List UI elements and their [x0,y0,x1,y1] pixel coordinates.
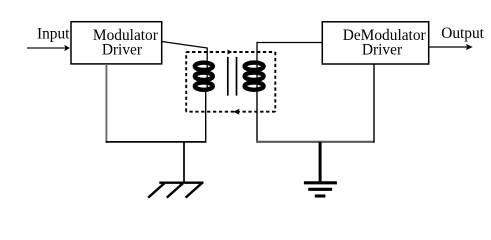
wire output arrow line [429,46,468,48]
arrow on dashed loop bottom (points left) [233,109,239,115]
ground GND1 chassis bar [159,181,203,183]
svg-text:Input: Input [37,26,70,43]
wire primary coil bottom lead [205,89,207,143]
wire Modulator bottom vertical [105,64,107,143]
dashed loop box around transformer [186,52,275,112]
transformer T1 primary coil (3 turns) [195,63,213,90]
wire primary coil top lead [206,48,208,90]
wire secondary coil bottom lead [256,89,258,143]
wire Modulator output diagonal to transformer primary [162,42,208,49]
arrow on dashed loop top (points right) [227,49,232,54]
ground GND1 hatch stroke 3 [186,183,202,197]
svg-text:Output: Output [441,25,484,42]
svg-text:Driver: Driver [362,41,402,58]
wire left horizontal bottom run [106,141,207,143]
wire secondary top horizontal to DeModulator [256,42,322,44]
output arrowhead [466,44,473,50]
input arrowhead [64,45,70,51]
svg-text:Driver: Driver [102,41,142,58]
ground GND2 earth stem [319,142,322,182]
ground GND1 chassis stem [183,142,185,183]
transformer T1 secondary coil (3 turns) [245,63,264,90]
wire input arrow line [27,47,66,49]
ground GND2 earth bar 2 [308,188,332,191]
ground GND2 earth bar 3 [315,194,326,197]
block U1 Modulator Driver box [71,22,162,64]
wire right horizontal bottom run [256,141,374,143]
wire DeModulator bottom vertical [373,64,375,143]
transformer T1 core lines [227,57,229,96]
ground GND1 hatch stroke 2 [167,183,183,197]
wire secondary coil top lead [256,43,258,90]
block U2 DeModulator Driver box [322,22,428,64]
ground GND1 hatch stroke 1 [148,183,164,197]
ground GND2 earth bar 1 [304,181,337,184]
